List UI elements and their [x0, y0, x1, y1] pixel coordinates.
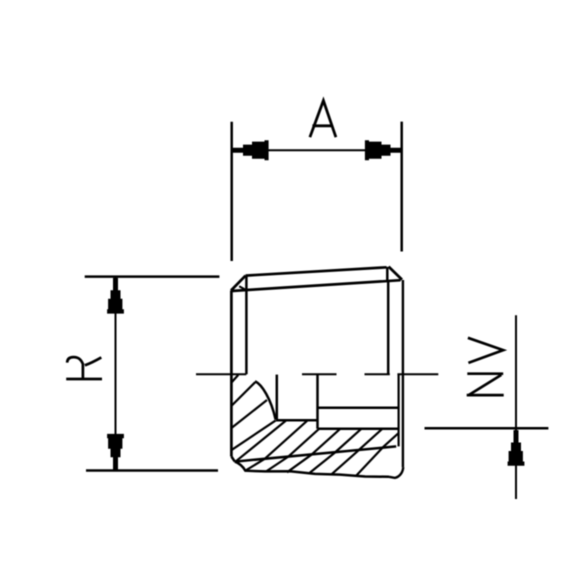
centerline dash 4 [397, 373, 438, 375]
dimension A arrowhead left [233, 140, 269, 160]
hatch line D5 [265, 420, 308, 458]
label letter A [310, 101, 336, 138]
hatch line D3 [231, 420, 275, 450]
body inner right section vertical [398, 375, 400, 447]
hatch line D2 [231, 400, 267, 428]
body bottom edge L3 [235, 462, 389, 477]
body bottom chamfer line L1 [235, 446, 396, 461]
dimension R arrowhead bottom [107, 434, 124, 470]
dimension R extension line top [85, 275, 220, 278]
section step edge [318, 428, 399, 431]
hatch line D0 [232, 375, 239, 383]
label letter V (rotated) [468, 338, 503, 363]
dimension R arrowhead top [107, 278, 124, 314]
body top-left chamfer edge [231, 276, 246, 291]
label letter R (rotated) [66, 357, 102, 379]
socket left wall [276, 375, 279, 420]
bottom chamfer band segment B4 [309, 452, 336, 473]
bottom chamfer band segment B1 [245, 459, 265, 471]
thread runout curve [255, 381, 276, 419]
hatch line D4 [236, 420, 286, 461]
centerline dash 3 [365, 373, 390, 375]
body right outer edge [402, 280, 404, 467]
dimension A extension line right [400, 122, 403, 252]
body left edge [230, 291, 233, 457]
dimension A extension line left [230, 122, 233, 261]
hatch line D6 [289, 429, 320, 457]
hatch line D1 [231, 382, 255, 406]
dimension A dimension line [232, 149, 402, 151]
dimension NV dimension line [515, 315, 517, 499]
body front top edge [231, 280, 400, 291]
bottom chamfer band segment B6 [356, 448, 383, 476]
hatch line D7 [312, 429, 340, 454]
centerline dash 2 [302, 373, 337, 375]
body top-right corner vertical [386, 267, 389, 280]
body back top edge [246, 267, 387, 275]
body right inner chamfer vertical [387, 280, 390, 374]
hatch line D8 [336, 429, 362, 452]
bottom chamfer band segment B2 [266, 457, 289, 472]
dimension R extension line bottom [86, 469, 218, 472]
label letter N (rotated) [467, 374, 504, 395]
socket bottom edge [276, 419, 318, 422]
socket far bottom edge [318, 407, 399, 410]
hatch line D10 [383, 433, 399, 448]
body top-right chamfer edge [389, 267, 402, 280]
dimension NV arrowhead up [508, 430, 525, 466]
bottom chamfer band segment B5 [332, 450, 360, 474]
body left inner chamfer vertical [245, 276, 248, 375]
bottom chamfer band segment B3 [287, 454, 312, 472]
body bottom-left corner edge [231, 457, 234, 462]
body bottom-right corner edge [389, 467, 403, 478]
socket right wall [316, 375, 319, 429]
dimension NV extension line [425, 427, 549, 430]
dimension A arrowhead right [365, 140, 401, 160]
hatch line D9 [359, 429, 382, 450]
dimension R dimension line [115, 277, 117, 470]
body top-left corner facet line [239, 286, 246, 290]
centerline dash 1 [196, 373, 246, 375]
